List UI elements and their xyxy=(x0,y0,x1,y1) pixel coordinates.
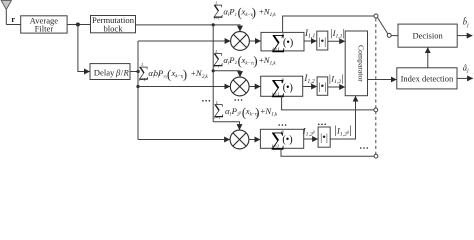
svg-text:l=1: l=1 xyxy=(214,15,220,20)
wire sum2 to abs2 xyxy=(303,86,317,88)
block Index detection xyxy=(397,68,457,89)
wire Delay output to bus xyxy=(130,71,138,73)
svg-text:β/R: β/R xyxy=(115,68,129,78)
node bus2 dot row2 xyxy=(212,69,215,72)
node junction dot after Average Filter xyxy=(76,23,80,27)
wire bus1 to multiplier 3 xyxy=(138,139,230,141)
label b_j output xyxy=(463,16,469,28)
switch throw contact 1 xyxy=(374,14,378,18)
block Delay xyxy=(90,64,130,80)
wire tap3 sum3 bottom to dashed xyxy=(281,148,374,156)
svg-text:(•): (•) xyxy=(283,82,293,93)
wire Index detection to Decision xyxy=(427,48,429,68)
svg-text:Filter: Filter xyxy=(35,24,54,34)
svg-text:k=1: k=1 xyxy=(272,47,279,52)
antenna xyxy=(1,1,11,25)
ellipsis dots group 1 xyxy=(202,100,210,102)
wire abs3 to comparator bottom xyxy=(330,96,355,139)
wire bus2 vertical xyxy=(212,25,214,122)
wire junction down to Delay xyxy=(78,25,90,72)
svg-text:): ) xyxy=(183,67,187,81)
wire Permutation output to multiplier 1 top xyxy=(136,25,241,31)
block abs1 xyxy=(317,31,328,50)
block Comparator xyxy=(345,31,367,96)
ellipsis dots group 2 xyxy=(234,99,242,101)
wire abs2 to comparator xyxy=(328,86,345,88)
svg-text:|•|: |•| xyxy=(320,133,328,144)
wire Decision output xyxy=(457,35,472,37)
wire tap1 sum1 top to switch xyxy=(283,16,374,32)
switch contact 3 xyxy=(374,154,378,158)
svg-text:Delay: Delay xyxy=(94,68,115,78)
block Decision xyxy=(398,24,457,47)
label I12 xyxy=(303,73,314,85)
svg-text:Decision: Decision xyxy=(412,31,443,41)
wire sum3 to abs3 xyxy=(304,138,318,140)
switch pole contact xyxy=(387,33,391,37)
svg-text:l=1: l=1 xyxy=(214,115,220,120)
svg-text:l=1: l=1 xyxy=(139,77,145,82)
wire bus1 to multiplier 2 xyxy=(138,86,230,88)
block abs2 xyxy=(317,77,328,95)
switch contact 2 xyxy=(374,108,378,112)
label abs I11 xyxy=(330,28,344,40)
block sum3 xyxy=(260,128,303,150)
svg-text:): ) xyxy=(255,105,259,119)
svg-text:Index detection: Index detection xyxy=(401,73,454,83)
wire multiplier2 to sum2 xyxy=(249,86,260,88)
wire antenna to Average Filter xyxy=(6,24,20,26)
wire Average Filter to Permutation block xyxy=(67,24,90,26)
svg-text:Comparator: Comparator xyxy=(356,45,365,82)
svg-text:(•): (•) xyxy=(282,135,292,146)
wire bus2 to multiplier 2 top xyxy=(213,71,240,77)
wire sum1 to abs1 xyxy=(304,40,316,42)
label a_j output xyxy=(463,62,469,74)
block sum1 xyxy=(261,31,304,53)
svg-text:block: block xyxy=(103,23,123,33)
wire multiplier1 to sum1 xyxy=(249,40,260,42)
node bus1 delay junction dot xyxy=(137,70,140,73)
svg-text:l=1: l=1 xyxy=(214,64,220,69)
wire multiplier3 to sum3 xyxy=(249,139,260,141)
multiplier X3 xyxy=(230,130,249,149)
wire switch pole to Decision xyxy=(391,35,398,37)
label I11 xyxy=(304,28,315,40)
label abs I12 xyxy=(329,73,343,85)
wire Index detection output xyxy=(457,77,473,79)
wire comparator to index detection xyxy=(368,79,397,81)
svg-text:): ) xyxy=(253,54,257,68)
node r label xyxy=(11,14,15,24)
node bus1 dot xyxy=(136,85,139,88)
wire bus1 to multiplier 1 xyxy=(138,40,230,42)
svg-text:k=1: k=1 xyxy=(272,144,279,149)
svg-text:): ) xyxy=(252,6,256,20)
block Permutation block xyxy=(91,15,136,33)
svg-text:k=1: k=1 xyxy=(272,92,279,97)
svg-text:r: r xyxy=(11,14,15,24)
node bus2 dot top xyxy=(212,23,215,26)
wire tap2 sum2 bottom to dashed xyxy=(282,96,374,110)
label abs I12b xyxy=(334,123,351,138)
switch arm xyxy=(377,18,388,34)
formula 3 xyxy=(214,100,278,120)
label I12b xyxy=(302,126,315,138)
multiplier X2 xyxy=(230,77,249,96)
ellipsis dots group 5 xyxy=(360,147,368,149)
wire abs1 to comparator xyxy=(328,40,345,42)
multiplier X1 xyxy=(231,32,250,51)
formula 1 xyxy=(213,0,276,20)
wire dashed control line xyxy=(375,18,377,156)
formula delay path xyxy=(138,62,208,82)
block sum2 xyxy=(261,76,303,98)
svg-text:|•|: |•| xyxy=(318,36,326,47)
wire bus1 vertical xyxy=(137,41,139,140)
block Average Filter xyxy=(21,15,67,33)
wire bus2 to multiplier 3 top xyxy=(213,122,239,130)
formula 2 xyxy=(213,49,276,69)
ellipsis dots group 3 xyxy=(278,124,286,126)
ellipsis dots group 4 xyxy=(318,124,326,126)
block abs3 xyxy=(318,127,330,147)
svg-text:|•|: |•| xyxy=(318,82,326,93)
svg-text:(•): (•) xyxy=(283,37,293,48)
